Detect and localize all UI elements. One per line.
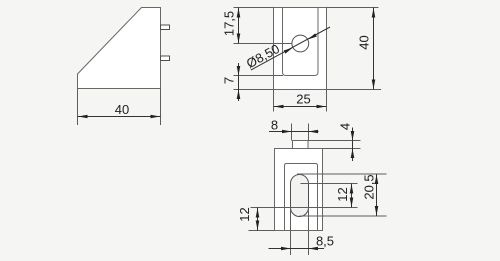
dimension line 20,5 bbox=[376, 174, 378, 216]
tab nub lower bbox=[161, 56, 170, 61]
extension line 25 right bbox=[326, 90, 328, 112]
side view outline bbox=[78, 8, 161, 89]
extension line left of dim 40 bbox=[77, 89, 79, 126]
extension line 8 left bbox=[291, 124, 293, 141]
extension line top (17,5) bbox=[234, 7, 274, 9]
dimension line 8,5 with outside arrows bbox=[269, 248, 325, 250]
extension line 20,5 bottom bbox=[300, 215, 387, 217]
svg-text:25: 25 bbox=[296, 92, 310, 107]
dimension line 8 with outside arrows bbox=[269, 131, 319, 133]
top view tab bbox=[293, 141, 309, 149]
extension rect bottom left (12) bbox=[249, 230, 275, 232]
extension line right top (40) bbox=[327, 7, 379, 9]
top view outer rect bbox=[275, 149, 323, 231]
extension line 12 inner top bbox=[300, 183, 357, 185]
front view outer rect bbox=[274, 8, 327, 90]
svg-text:17,5: 17,5 bbox=[222, 11, 237, 36]
extension line right bottom (40) bbox=[327, 89, 382, 91]
extension chord line (shared 12 dims) bbox=[251, 207, 358, 209]
svg-text:8: 8 bbox=[271, 118, 278, 133]
dimension line 40 (front view right) bbox=[373, 8, 375, 90]
dimension line 40 bbox=[78, 116, 161, 118]
svg-text:40: 40 bbox=[115, 102, 129, 117]
extension line 8,5 left bbox=[290, 208, 292, 255]
top view channel bbox=[285, 164, 318, 231]
extension line 8,5 right bbox=[308, 208, 310, 255]
dimension line 12 left bbox=[257, 208, 259, 231]
svg-text:12: 12 bbox=[335, 187, 350, 201]
dimension line 25 bbox=[274, 106, 327, 108]
extension line 20,5 top bbox=[297, 173, 387, 175]
extension line 25 left bbox=[273, 90, 275, 112]
svg-text:4: 4 bbox=[338, 123, 353, 130]
extension line hole center bbox=[234, 43, 293, 45]
hole circle bbox=[292, 35, 309, 52]
dimension line 4 with outside arrows bbox=[352, 128, 354, 162]
extension line rect bottom left (7) bbox=[234, 89, 274, 91]
svg-text:8,5: 8,5 bbox=[316, 233, 334, 248]
extension line right of dim 40 bbox=[160, 89, 162, 126]
front view channel slot bbox=[283, 8, 319, 76]
dimension line 12 inner bbox=[351, 184, 353, 208]
leader line diameter 8,50 bbox=[251, 27, 330, 70]
svg-text:7: 7 bbox=[222, 77, 237, 84]
tab nub upper bbox=[161, 25, 170, 30]
top view slot stadium bbox=[291, 175, 309, 217]
dimension line 17,5 bbox=[238, 8, 240, 44]
svg-text:20,5: 20,5 bbox=[362, 174, 377, 199]
extension line 4 bottom (rect top) bbox=[323, 148, 361, 150]
extension line 4 top (tab top) bbox=[308, 140, 361, 142]
extension line 8 right bbox=[308, 124, 310, 141]
svg-text:40: 40 bbox=[357, 35, 372, 49]
extension line slot bottom (7) bbox=[234, 75, 284, 77]
dimension line 7 with outside arrows bbox=[238, 63, 240, 101]
svg-text:12: 12 bbox=[237, 207, 252, 221]
